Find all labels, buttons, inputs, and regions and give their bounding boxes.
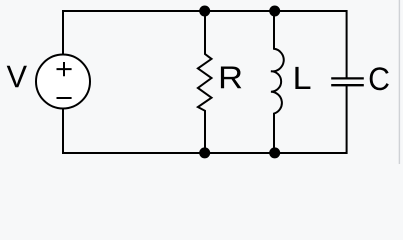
wire right branch lower <box>346 86 348 154</box>
voltage source plus sign <box>57 62 72 76</box>
wire right branch upper <box>346 10 348 78</box>
junction node dot: top of R <box>199 6 210 17</box>
wire top rail (node top) <box>63 10 347 12</box>
inductor L coil <box>271 10 284 154</box>
capacitor C bottom plate <box>331 84 364 86</box>
resistor R zigzag <box>198 10 212 154</box>
label V <box>7 66 27 88</box>
junction node dot: bottom of R <box>199 147 210 158</box>
voltage source minus sign <box>57 97 72 99</box>
junction node dot: bottom of L <box>269 147 280 158</box>
label R <box>221 67 242 89</box>
label L <box>295 67 310 89</box>
wire left branch lower <box>62 108 64 154</box>
wire left branch upper <box>62 10 64 55</box>
label C <box>370 67 389 90</box>
junction node dot: top of L <box>269 6 280 17</box>
wire bottom rail (node bottom) <box>63 152 347 154</box>
panel divider line at right edge <box>399 0 400 164</box>
capacitor C top plate <box>331 77 364 79</box>
voltage source V circle <box>36 55 90 109</box>
